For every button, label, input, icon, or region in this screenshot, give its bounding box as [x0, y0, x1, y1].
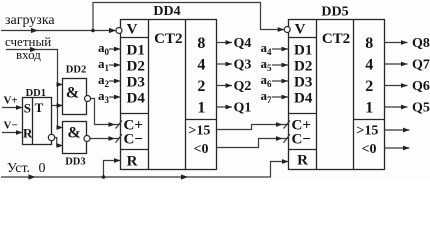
svg-text:&: & — [67, 125, 80, 142]
svg-text:Q2: Q2 — [234, 79, 252, 94]
svg-text:загрузка: загрузка — [5, 13, 55, 28]
svg-text:8: 8 — [197, 35, 205, 52]
svg-text:4: 4 — [197, 57, 205, 74]
svg-text:>15: >15 — [188, 123, 210, 138]
svg-text:Q4: Q4 — [234, 36, 252, 51]
svg-text:D4: D4 — [294, 91, 313, 107]
svg-text:Q8: Q8 — [412, 36, 430, 51]
svg-text:V+: V+ — [4, 94, 18, 106]
svg-text:D1: D1 — [294, 43, 312, 59]
svg-text:D2: D2 — [294, 59, 312, 75]
svg-text:4: 4 — [365, 57, 373, 74]
svg-text:2: 2 — [197, 78, 205, 95]
svg-text:DD5: DD5 — [321, 5, 348, 20]
svg-text:1: 1 — [365, 100, 373, 117]
svg-text:CT2: CT2 — [154, 31, 182, 47]
svg-text:2: 2 — [365, 78, 373, 95]
svg-text:CT2: CT2 — [322, 31, 350, 47]
svg-text:D2: D2 — [127, 59, 145, 75]
svg-text:C−: C− — [124, 132, 143, 148]
svg-text:<0: <0 — [362, 142, 377, 157]
svg-text:DD4: DD4 — [153, 4, 180, 19]
svg-text:V: V — [127, 22, 138, 38]
svg-text:R: R — [297, 153, 308, 169]
svg-text:&: & — [66, 84, 79, 101]
svg-text:8: 8 — [365, 35, 373, 52]
svg-text:Q1: Q1 — [234, 101, 252, 116]
svg-text:Q7: Q7 — [412, 58, 430, 73]
svg-text:DD2: DD2 — [66, 65, 86, 76]
svg-text:Q6: Q6 — [412, 79, 430, 94]
svg-text:0: 0 — [39, 161, 46, 176]
svg-text:T: T — [35, 100, 44, 115]
svg-text:D1: D1 — [127, 43, 145, 59]
svg-text:V: V — [295, 22, 306, 38]
svg-text:1: 1 — [197, 100, 205, 117]
svg-text:>15: >15 — [356, 123, 378, 138]
svg-text:DD3: DD3 — [65, 157, 85, 168]
svg-text:R: R — [127, 153, 138, 169]
svg-text:R: R — [23, 125, 33, 140]
svg-text:D4: D4 — [127, 91, 146, 107]
svg-text:<0: <0 — [194, 142, 209, 157]
svg-text:вход: вход — [16, 47, 41, 62]
svg-text:DD1: DD1 — [26, 88, 46, 99]
svg-text:C−: C− — [292, 132, 311, 148]
svg-text:Q3: Q3 — [234, 58, 252, 73]
svg-text:D3: D3 — [127, 75, 145, 91]
svg-text:D3: D3 — [294, 75, 312, 91]
svg-text:S: S — [24, 100, 31, 115]
svg-text:Уст.: Уст. — [7, 161, 30, 176]
svg-text:V−: V− — [4, 119, 18, 131]
svg-text:Q5: Q5 — [412, 101, 430, 116]
